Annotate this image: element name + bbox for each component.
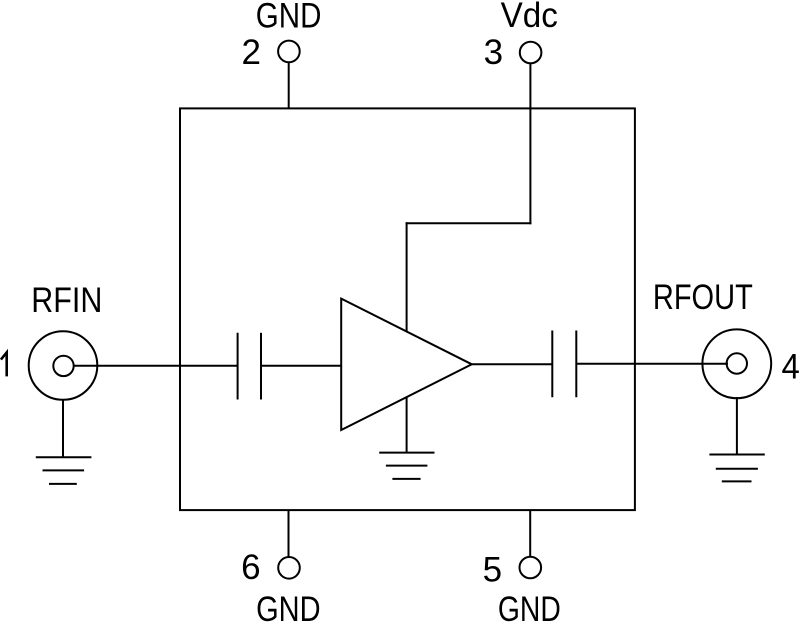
pin 6 terminal circle: [278, 557, 300, 579]
pin number 1: [1, 352, 7, 376]
wire amplifier output to C2: [472, 363, 553, 365]
pin 3 terminal circle: [520, 42, 542, 64]
wire J1 to input capacitor: [73, 365, 238, 367]
capacitor C2 right plate: [575, 331, 577, 398]
wire C2 to connector J2: [576, 363, 728, 365]
wire pin 6 to package: [288, 510, 290, 558]
wire pin 5 to package: [529, 510, 531, 557]
connector J1 outer ring: [29, 331, 98, 400]
svg-text:GND: GND: [256, 590, 321, 623]
wire Vdc vertical drop: [529, 63, 531, 224]
wire J2 shield to ground: [736, 397, 738, 455]
svg-text:2: 2: [241, 33, 260, 72]
svg-text:4: 4: [782, 348, 800, 387]
capacitor C1 right plate: [260, 333, 262, 400]
svg-text:6: 6: [241, 548, 260, 587]
connector J2 outer ring: [702, 329, 771, 398]
connector J2 center pin: [727, 353, 747, 373]
pin 2 terminal circle: [278, 41, 300, 63]
wire Vdc horizontal jog: [406, 222, 532, 224]
wire C1 to amplifier input: [261, 365, 341, 367]
svg-text:3: 3: [484, 33, 503, 72]
svg-text:GND: GND: [256, 0, 322, 36]
pin 5 terminal circle: [520, 557, 542, 579]
amplifier triangle: [341, 299, 472, 430]
svg-text:Vdc: Vdc: [501, 0, 558, 35]
capacitor C1 left plate: [237, 333, 239, 400]
package outline U1: [180, 108, 635, 510]
svg-text:5: 5: [483, 550, 502, 589]
ground symbol at J1: [36, 457, 92, 484]
svg-text:RFIN: RFIN: [31, 281, 102, 320]
wire J1 shield to ground: [62, 399, 64, 457]
ground symbol at J2: [709, 455, 764, 482]
ground symbol under amplifier: [379, 453, 434, 479]
wire Vdc into amplifier: [406, 222, 408, 331]
wire pin 2 to package: [288, 62, 290, 109]
capacitor C2 left plate: [551, 331, 553, 398]
wire amplifier to ground: [406, 398, 408, 453]
svg-text:GND: GND: [498, 590, 561, 623]
svg-text:RFOUT: RFOUT: [653, 278, 753, 317]
connector J1 center pin: [53, 356, 73, 376]
